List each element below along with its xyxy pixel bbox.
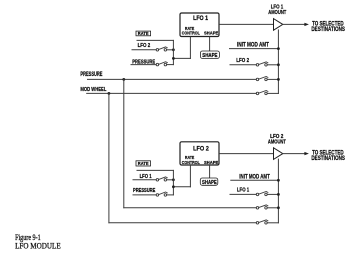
- svg-text:LFO 2: LFO 2: [236, 58, 249, 64]
- wire MOD WHEEL bus: [87, 92, 257, 94]
- wire SHAPE pin (LFO2): [209, 166, 211, 179]
- svg-text:SHAPE: SHAPE: [202, 53, 218, 59]
- wire amount feedback vertical (top): [277, 30, 279, 94]
- wire arrow to destinations (bottom): [283, 153, 306, 155]
- svg-text:SHAPE: SHAPE: [204, 31, 219, 37]
- svg-text:DESTINATIONS: DESTINATIONS: [311, 155, 345, 162]
- wire INIT MOD AMT row (bottom): [231, 179, 279, 181]
- op-amp LFO1 amount amplifier: [274, 19, 283, 31]
- wire + switch LFO 1 rate input: [133, 179, 156, 181]
- op-amp LFO2 amount amplifier: [274, 148, 283, 160]
- svg-text:SHAPE: SHAPE: [202, 180, 217, 186]
- svg-text:CONTROL: CONTROL: [182, 31, 200, 37]
- wire + switch PRESSURE rate input (top): [131, 64, 156, 66]
- wire amount feedback vertical (bottom): [277, 159, 279, 223]
- svg-text:INIT MOD AMT: INIT MOD AMT: [237, 42, 269, 49]
- svg-text:LFO 2: LFO 2: [138, 43, 151, 49]
- svg-text:PRESSURE: PRESSURE: [80, 72, 102, 78]
- wire LFO2 output to amp: [220, 153, 274, 155]
- wire RATE to collector (bottom): [137, 169, 173, 171]
- svg-text:LFO 2: LFO 2: [193, 145, 209, 152]
- svg-text:PRESSURE: PRESSURE: [133, 188, 156, 194]
- knob SHAPE (LFO2) boxed label: [200, 178, 218, 185]
- switch on PRESSURE row (top): [256, 78, 259, 81]
- wire SHAPE pin (LFO1): [209, 37, 211, 51]
- knob RATE (LFO2) boxed label: [136, 161, 151, 166]
- knob SHAPE (LFO1) boxed label: [200, 51, 219, 58]
- LFO 2 block U2: [180, 142, 219, 166]
- svg-text:DESTINATIONS: DESTINATIONS: [311, 26, 345, 33]
- svg-text:RATE: RATE: [185, 26, 194, 31]
- knob RATE (LFO1) boxed label: [136, 31, 151, 36]
- wire INIT MOD AMT row (top): [230, 48, 279, 50]
- wire RATE CONTROL pin (LFO1): [189, 37, 191, 58]
- wire PRESSURE feed row (bottom) + switch: [124, 207, 256, 209]
- svg-text:RATE: RATE: [138, 161, 149, 166]
- wire rate collector vertical (top): [172, 40, 174, 64]
- svg-text:AMOUNT: AMOUNT: [268, 10, 286, 16]
- wire RATE CONTROL pin (LFO2): [189, 166, 191, 187]
- svg-text:AMOUNT: AMOUNT: [268, 140, 286, 146]
- wire MOD WHEEL drop to LFO2 amount section: [108, 93, 110, 222]
- wire + switch LFO 1 amount row: [230, 193, 256, 195]
- wire MOD WHEEL feed row (bottom) + switch: [109, 222, 256, 224]
- wire arrow to destinations (top): [283, 23, 306, 25]
- svg-text:LFO MODULE: LFO MODULE: [15, 241, 61, 251]
- svg-text:LFO 1: LFO 1: [193, 15, 208, 22]
- svg-text:SHAPE: SHAPE: [204, 160, 219, 166]
- svg-text:LFO 1: LFO 1: [140, 174, 152, 180]
- svg-text:RATE: RATE: [185, 155, 194, 160]
- wire + switch LFO 2 amount row: [230, 64, 256, 66]
- wire LFO1 output to amp: [220, 23, 274, 25]
- wire + switch PRESSURE rate input (bottom): [133, 194, 156, 196]
- svg-text:CONTROL: CONTROL: [182, 160, 200, 166]
- wire PRESSURE drop to LFO2 amount section: [123, 79, 125, 207]
- switch on MOD WHEEL row (top): [256, 92, 259, 95]
- wire + switch LFO 2 rate input: [132, 49, 156, 51]
- LFO 1 block U1: [180, 13, 219, 37]
- wire RATE to collector (top): [137, 39, 173, 41]
- wire PRESSURE bus: [88, 78, 257, 80]
- svg-text:MOD WHEEL: MOD WHEEL: [80, 87, 106, 93]
- svg-text:RATE: RATE: [138, 31, 149, 36]
- svg-text:INIT MOD AMT: INIT MOD AMT: [239, 174, 270, 181]
- svg-text:LFO 1: LFO 1: [237, 188, 250, 194]
- wire rate collector vertical (bottom): [172, 170, 174, 195]
